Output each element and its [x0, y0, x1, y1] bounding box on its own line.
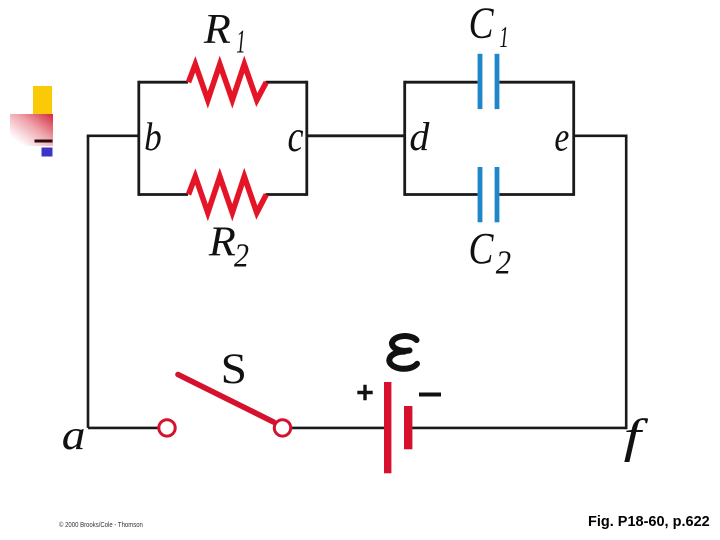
svg-text:R: R [208, 219, 236, 265]
svg-text:e: e [554, 115, 569, 160]
label S [221, 345, 247, 393]
resistor R1 [189, 64, 267, 100]
battery positive plate (long) [384, 382, 391, 473]
node c [288, 112, 304, 161]
label C1 [469, 0, 509, 54]
label EMF epsilon [389, 336, 417, 369]
svg-text:a: a [62, 412, 86, 459]
label R1 [203, 7, 246, 60]
svg-text:R: R [203, 7, 231, 53]
svg-text:1: 1 [236, 23, 245, 60]
label R2 [208, 219, 249, 274]
capacitor C2 [478, 167, 500, 222]
node b [144, 115, 162, 160]
switch S contact circle right [274, 420, 290, 436]
wire: d-e loop right side [572, 81, 575, 196]
wire: d-e loop bottom (leads of C2) [405, 193, 574, 196]
wire: right vertical rail (e branch to f) [625, 136, 628, 429]
wire: b-c loop bottom (leads of R2) [139, 193, 307, 196]
wire: c to d [307, 134, 405, 137]
wire: e to right rail [574, 135, 628, 138]
svg-text:© 2000 Brooks/Cole - Thomson: © 2000 Brooks/Cole - Thomson [59, 520, 143, 529]
wire: lead into node b [87, 135, 140, 138]
wire: a to switch [88, 427, 158, 430]
wire: battery negative plate to f [412, 427, 626, 430]
svg-text:2: 2 [496, 243, 511, 281]
wire: b-c loop top (leads of R1) [139, 81, 307, 84]
svg-text:C: C [469, 0, 495, 47]
wire: switch to battery positive plate [291, 427, 384, 430]
svg-text:1: 1 [499, 19, 508, 54]
node e [554, 115, 569, 160]
wire: b-c loop left side [137, 81, 140, 196]
svg-text:S: S [221, 345, 247, 393]
node f [624, 410, 649, 463]
node d [409, 114, 430, 159]
svg-text:2: 2 [234, 236, 249, 274]
resistor R2 [189, 177, 267, 213]
decorative slide ornament [10, 86, 53, 157]
figure caption [588, 514, 710, 530]
label C2 [469, 224, 512, 280]
battery negative plate (short) [404, 406, 412, 449]
svg-text:C: C [469, 224, 495, 272]
battery - terminal sign [419, 393, 441, 397]
svg-text:d: d [409, 114, 430, 159]
battery + terminal sign [357, 385, 372, 400]
wire: d-e loop top (leads of C1) [405, 81, 574, 84]
switch S arm [178, 375, 274, 423]
svg-text:f: f [624, 410, 649, 463]
copyright line [59, 520, 143, 529]
svg-text:c: c [288, 112, 304, 161]
wire: left vertical rail (a to b branch) [87, 136, 90, 428]
wire: d-e loop left side [403, 81, 406, 196]
switch S contact circle left [159, 420, 175, 436]
svg-text:Fig. P18-60, p.622: Fig. P18-60, p.622 [588, 514, 710, 530]
node a [62, 412, 86, 459]
svg-text:b: b [144, 115, 162, 160]
capacitor C1 [478, 54, 500, 109]
wire: b-c loop right side [305, 81, 308, 196]
